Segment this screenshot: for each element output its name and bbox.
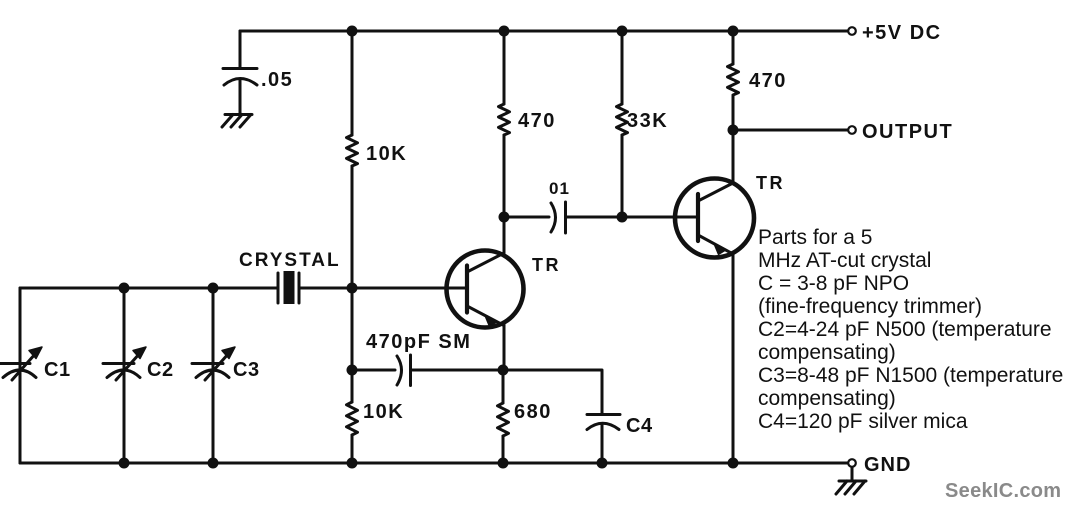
- resistor 10K upper: [347, 135, 358, 166]
- svg-text:TR: TR: [756, 173, 785, 193]
- wire TR1 emitter to node: [503, 325, 506, 370]
- node top rail C: [617, 26, 628, 37]
- node 10K bottom: [347, 458, 358, 469]
- svg-text:10K: 10K: [363, 401, 404, 423]
- svg-text:C4: C4: [626, 415, 653, 437]
- wire TR2 emitter down: [732, 254, 735, 463]
- svg-text:C2: C2: [147, 359, 174, 381]
- resistor 470 left: [499, 104, 510, 135]
- wire left cap bank verticals: [20, 288, 213, 463]
- svg-text:(fine-frequency trimmer): (fine-frequency trimmer): [758, 295, 982, 318]
- svg-text:C1: C1: [44, 359, 71, 381]
- svg-text:01: 01: [549, 179, 570, 198]
- node top rail A: [347, 26, 358, 37]
- resistor 470 right: [728, 64, 739, 95]
- node top rail B: [499, 26, 510, 37]
- resistor 680: [502, 370, 505, 463]
- node TR2 emitter bottom: [728, 458, 739, 469]
- svg-text:compensating): compensating): [758, 387, 896, 410]
- trimmer capacitor C1: [0, 347, 42, 380]
- node top rail D: [728, 26, 739, 37]
- svg-text:470pF SM: 470pF SM: [366, 331, 471, 353]
- resistor 10K lower: [347, 402, 358, 435]
- wire C4 branch: [503, 370, 602, 414]
- wire crystal row y=288: [20, 287, 467, 290]
- crystal: [278, 273, 299, 303]
- terminal GND: [848, 459, 856, 467]
- capacitor C4: [587, 415, 620, 430]
- wire .05 branch drop: [239, 31, 242, 68]
- svg-text:470: 470: [749, 70, 787, 92]
- svg-text:C3: C3: [233, 359, 260, 381]
- wire bottom rail: [20, 462, 848, 465]
- wire vertical line D (470 / TR2 collector): [732, 31, 735, 183]
- node crystal/base: [347, 283, 358, 294]
- svg-text:470: 470: [518, 110, 556, 132]
- svg-text:Parts for a 5: Parts for a 5: [758, 226, 872, 249]
- trimmer capacitor C2: [103, 347, 146, 380]
- node C4 bottom: [597, 458, 608, 469]
- svg-text:OUTPUT: OUTPUT: [862, 121, 953, 143]
- node 470pF left: [347, 365, 358, 376]
- svg-text:TR: TR: [532, 255, 561, 275]
- node C2 top: [119, 283, 130, 294]
- wire output line: [733, 129, 848, 132]
- wire vertical line A (10K / crystal / 10K): [351, 31, 354, 463]
- svg-text:33K: 33K: [627, 110, 668, 132]
- trimmer capacitor C3: [192, 347, 235, 380]
- terminal OUTPUT: [848, 126, 856, 134]
- svg-text:+5V DC: +5V DC: [862, 22, 942, 44]
- wire vertical line B (470 / TR1 collector): [503, 31, 506, 253]
- terminal +5V: [848, 27, 856, 35]
- ground (under .05 cap): [222, 115, 252, 128]
- svg-text:compensating): compensating): [758, 341, 896, 364]
- capacitor .05: [223, 69, 257, 86]
- svg-text:SeekIC.com: SeekIC.com: [945, 480, 1061, 502]
- svg-text:CRYSTAL: CRYSTAL: [239, 250, 341, 271]
- transistor TR2: [675, 179, 754, 258]
- wire top rail +5V: [240, 30, 848, 33]
- resistor 33K: [617, 104, 628, 135]
- node OUTPUT: [728, 125, 739, 136]
- capacitor 01: [551, 202, 566, 233]
- svg-text:MHz AT-cut crystal: MHz AT-cut crystal: [758, 249, 931, 272]
- svg-text:GND: GND: [864, 454, 911, 476]
- wire vertical line C (33K): [621, 31, 624, 217]
- node C3 bottom: [208, 458, 219, 469]
- node 33K / TR2 base: [617, 212, 628, 223]
- svg-text:C = 3-8 pF NPO: C = 3-8 pF NPO: [758, 272, 909, 295]
- wire signal line y=217 (.01 coupling): [504, 216, 696, 219]
- node C2 bottom: [119, 458, 130, 469]
- svg-text:10K: 10K: [366, 143, 407, 165]
- node TR1 collector / .01: [499, 212, 510, 223]
- capacitor 470pF SM: [397, 355, 411, 386]
- wire TR2 base from 33K node: [622, 216, 696, 219]
- svg-text:C3=8-48 pF N1500 (temperature: C3=8-48 pF N1500 (temperature: [758, 364, 1063, 387]
- wire 470pF row y=370: [352, 369, 503, 372]
- ground (GND symbol): [851, 467, 854, 481]
- svg-text:C4=120 pF silver mica: C4=120 pF silver mica: [758, 410, 968, 433]
- svg-text:680: 680: [514, 401, 552, 423]
- transistor TR1: [447, 251, 524, 328]
- node TR1 emitter: [498, 365, 509, 376]
- svg-text:C2=4-24 pF N500 (temperature: C2=4-24 pF N500 (temperature: [758, 318, 1052, 341]
- svg-text:.05: .05: [261, 69, 293, 91]
- node 680 bottom: [498, 458, 509, 469]
- node C3 top: [208, 283, 219, 294]
